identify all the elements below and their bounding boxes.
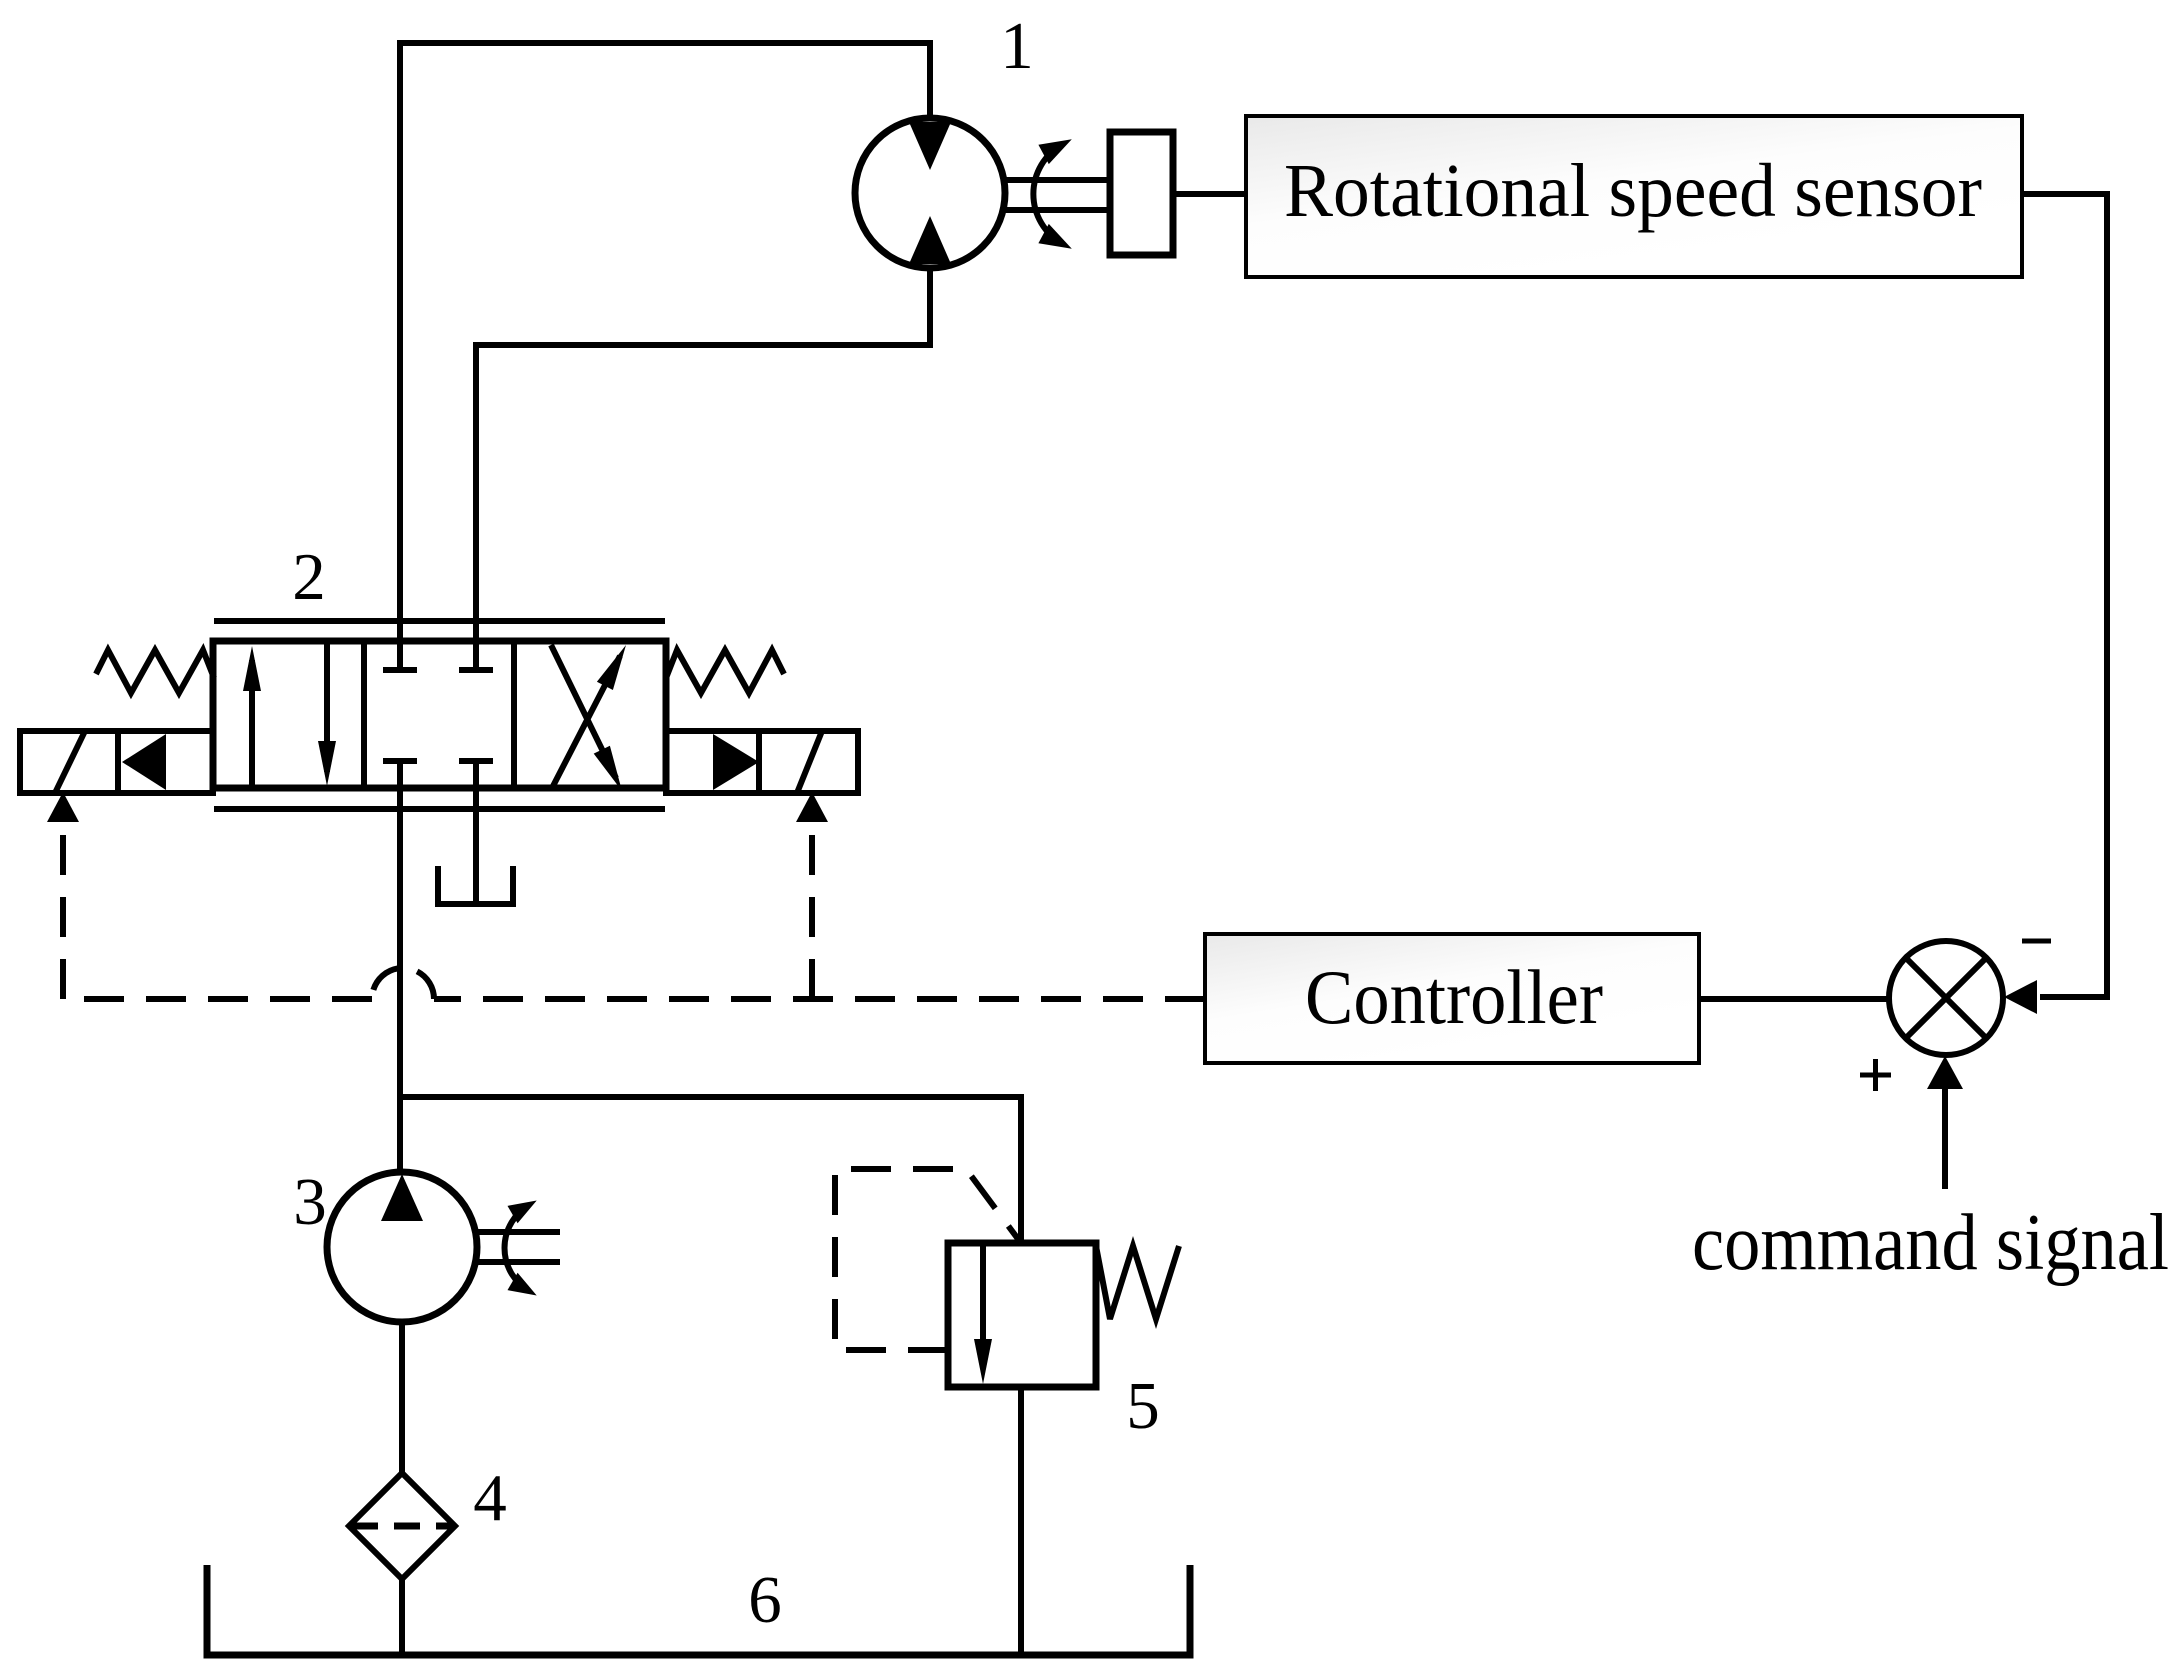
Controller box xyxy=(1205,934,1699,1063)
summing junction circle with cross xyxy=(1889,941,2003,1055)
wire filter to tank xyxy=(399,1579,405,1654)
wire coupling to sensor box xyxy=(1173,191,1246,197)
right proportional solenoid xyxy=(666,731,858,793)
proportional valve top bar line xyxy=(214,618,665,624)
dashed pilot line of relief valve xyxy=(835,1169,1021,1350)
plus sign xyxy=(1860,1073,1891,1078)
wire pump suction to filter xyxy=(399,1322,405,1474)
relief valve spring xyxy=(1096,1246,1179,1319)
minus sign xyxy=(2022,939,2051,944)
pump rotation arrowhead top xyxy=(508,1201,537,1224)
dashed hop over pressure line xyxy=(372,968,434,999)
relief valve flow arrow xyxy=(980,1243,986,1342)
pump 3 circle xyxy=(327,1172,477,1322)
motor rotation arc xyxy=(1033,144,1063,244)
wire motor outlet down and left to valve port B xyxy=(476,266,930,670)
svg-text:4: 4 xyxy=(473,1461,507,1535)
motor rotation arrowhead bottom xyxy=(1038,224,1071,249)
valve right position: crossed arrows xyxy=(551,656,620,790)
dashed pilot riser to left solenoid xyxy=(60,820,66,999)
motor bottom flow triangle xyxy=(909,216,951,264)
svg-text:3: 3 xyxy=(293,1165,327,1239)
wire valve port P down to pump xyxy=(397,761,403,1172)
feedback arrowhead into summing junction xyxy=(2004,980,2037,1014)
valve left return spring xyxy=(96,650,214,693)
pump rotation arrowhead bottom xyxy=(508,1273,537,1296)
wire branch to relief valve xyxy=(400,1097,1021,1245)
command signal arrow xyxy=(1942,1080,1948,1189)
tank 6 xyxy=(207,1565,1190,1655)
shaft coupling block of sensor xyxy=(1110,132,1173,255)
pump rotation arc xyxy=(505,1205,529,1291)
svg-text:2: 2 xyxy=(292,540,326,614)
valve right return spring xyxy=(666,650,784,693)
wire controller to summing junction xyxy=(1699,996,1889,1002)
wire feedback from sensor to summing junction xyxy=(2022,194,2107,997)
wire relief valve to tank xyxy=(1018,1387,1024,1654)
pump flow triangle xyxy=(381,1174,423,1221)
proportional valve bottom bar line xyxy=(214,806,665,812)
svg-text:command signal: command signal xyxy=(1692,1199,2169,1287)
motor top flow triangle xyxy=(909,122,951,170)
valve left position: parallel arrows xyxy=(249,660,255,788)
svg-text:6: 6 xyxy=(748,1563,782,1637)
valve centre position blocked ports (T bars) xyxy=(383,667,417,673)
svg-text:5: 5 xyxy=(1126,1369,1160,1443)
dashed control line controller to valve solenoids xyxy=(434,996,1205,1002)
svg-text:Rotational speed sensor: Rotational speed sensor xyxy=(1284,149,1982,233)
left proportional solenoid xyxy=(20,731,213,793)
drain tank symbol under valve xyxy=(438,866,513,904)
relief valve 5 body xyxy=(948,1243,1096,1387)
valve 2 body xyxy=(213,641,666,788)
dashed pilot riser to right solenoid xyxy=(809,820,815,999)
svg-text:Controller: Controller xyxy=(1305,954,1603,1040)
hydraulic motor 1 (circle) xyxy=(855,118,1005,268)
svg-text:1: 1 xyxy=(1000,9,1034,83)
filter 4 diamond xyxy=(349,1473,455,1579)
pump shaft double line xyxy=(475,1229,560,1235)
motor rotation arrowhead top xyxy=(1038,139,1071,164)
filter element dashed line xyxy=(352,1523,452,1530)
wire top from valve port A to motor inlet xyxy=(400,43,930,670)
Rotational speed sensor box xyxy=(1246,116,2022,277)
motor shaft (double line) xyxy=(1004,177,1110,183)
wire valve port T to drain xyxy=(473,761,479,904)
